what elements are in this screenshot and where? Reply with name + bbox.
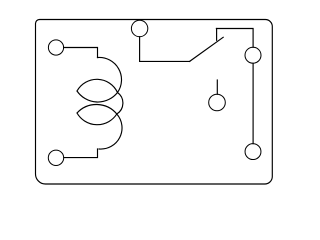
switch arm (movable contact) (190, 37, 224, 61)
terminal pin 1 (coil top-left) (48, 40, 63, 55)
wire pin1 to coil top (64, 48, 98, 58)
terminal pin 5 (bottom-right) (245, 144, 261, 160)
wire pin 4 to pin 5 (252, 63, 254, 144)
relay body outline (36, 20, 273, 185)
terminal pin 3 (common, top-middle) (131, 20, 147, 36)
terminal pin 6 (armature, middle) (209, 94, 226, 111)
wire coil bottom to pin 2 (64, 149, 98, 158)
wire fixed contact to pin 4 (216, 29, 253, 48)
terminal pin 4 (NO contact, top-right) (245, 47, 261, 63)
terminal pin 2 (coil bottom-left) (48, 150, 63, 165)
coil L1 (77, 57, 123, 149)
wire common down and right to pivot (140, 37, 190, 62)
fixed contact stub (216, 29, 218, 41)
armature stub (216, 80, 218, 94)
